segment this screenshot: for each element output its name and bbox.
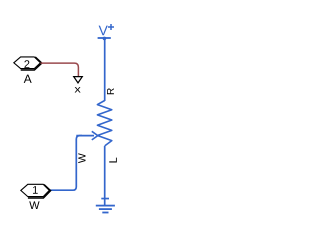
- port label W: [29, 201, 39, 209]
- port 1 shadow: [28, 185, 51, 199]
- node V+ junction dot: [103, 37, 107, 41]
- node V+ tick bar: [98, 37, 111, 39]
- wire resistor to ground: [104, 146, 106, 206]
- port 2 number label "2": [24, 60, 29, 68]
- resistor / potentiometer zigzag: [97, 101, 111, 146]
- port 1 (outport hexagon): [21, 184, 50, 196]
- ground symbol bar 1: [96, 205, 115, 207]
- ground symbol bar 2: [99, 208, 112, 210]
- port 2 shadow: [21, 57, 42, 70]
- wiper arrowhead: [92, 131, 98, 140]
- node V+ plus sign: [108, 26, 114, 28]
- unconnected-line open arrowhead: [74, 77, 83, 83]
- node V+ label: [99, 26, 108, 36]
- wire V+ to resistor: [104, 39, 106, 102]
- wiper arrow line: [76, 135, 94, 137]
- label W (wiper wire): [78, 153, 85, 163]
- label L: [109, 158, 117, 163]
- port 1 number label "1": [33, 186, 38, 194]
- ground node tick: [101, 198, 109, 200]
- port label A: [24, 75, 32, 83]
- wire: unconnected signal from port A (red): [41, 63, 79, 76]
- label R: [107, 88, 114, 94]
- wire wiper to port W: [49, 136, 82, 191]
- unconnected marker x: [75, 87, 81, 92]
- port 2 (outport hexagon): [14, 57, 41, 69]
- ground symbol bar 3: [102, 212, 108, 214]
